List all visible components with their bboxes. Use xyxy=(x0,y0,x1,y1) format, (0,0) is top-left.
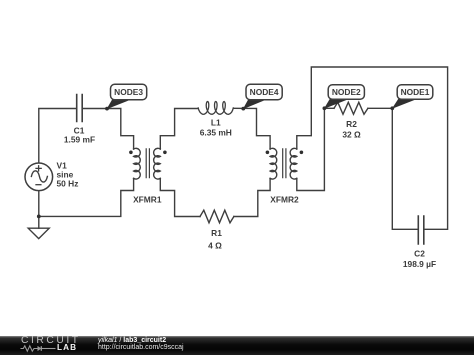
node C junction NODE2 xyxy=(323,106,327,110)
svg-text:198.9 µF: 198.9 µF xyxy=(403,259,436,269)
V1 source circle xyxy=(25,163,53,191)
wire XFMR2 top-right up and around to C2 right plate xyxy=(297,67,448,229)
svg-text:6.35 mH: 6.35 mH xyxy=(200,128,232,138)
NODE4 tail xyxy=(243,98,267,109)
svg-text:XFMR1: XFMR1 xyxy=(133,195,162,205)
NODE4 label box xyxy=(246,84,282,99)
wire L1 to NODE4 to XFMR2 top-left xyxy=(233,108,270,149)
wire C1 to NODE3 to XFMR1 top-left xyxy=(82,109,133,150)
NODE2 tail xyxy=(324,99,348,109)
wire R1 to XFMR2 bottom-left xyxy=(234,178,270,216)
XFMR1 left winding xyxy=(134,148,141,179)
XFMR1 polarity dots xyxy=(129,151,133,155)
XFMR1 right winding xyxy=(154,148,161,179)
svg-text:L1: L1 xyxy=(211,117,221,127)
XFMR1 core xyxy=(146,149,149,178)
wire NODE2 junction to R2 xyxy=(324,107,334,109)
capacitor C2 xyxy=(418,216,424,244)
svg-text:R2: R2 xyxy=(346,119,357,129)
node B junction NODE4 xyxy=(241,107,245,111)
XFMR2 right winding xyxy=(290,148,297,179)
CircuitLab logo xyxy=(21,335,81,347)
resistor R2 xyxy=(334,102,368,114)
resistor R1 xyxy=(200,210,234,223)
node A junction NODE3 xyxy=(105,107,109,111)
wire R2 to NODE1 junction to C2 left plate xyxy=(368,108,418,229)
XFMR2 core xyxy=(283,149,286,178)
node D junction NODE1 xyxy=(390,106,394,110)
wire XFMR2 bottom-right up to NODE2 junction xyxy=(297,108,325,190)
NODE3 tail xyxy=(107,98,132,109)
svg-text:R1: R1 xyxy=(211,228,222,238)
svg-text:NODE3: NODE3 xyxy=(114,87,143,97)
wire V1 bottom to ground junction and to XFMR1 bottom-left xyxy=(39,178,134,228)
XFMR2 left winding xyxy=(270,148,277,179)
NODE1 label box xyxy=(397,85,433,99)
NODE1 tail xyxy=(392,99,416,109)
junction dot ground xyxy=(37,215,41,219)
wire XFMR1 bottom-right to R1 xyxy=(160,178,200,216)
svg-text:32 Ω: 32 Ω xyxy=(342,130,361,140)
XFMR2 polarity dots xyxy=(266,151,270,155)
wire XFMR1 top-right to L1 xyxy=(160,109,198,150)
svg-text:NODE1: NODE1 xyxy=(401,87,430,97)
svg-text:1.59 mF: 1.59 mF xyxy=(64,135,95,145)
ground xyxy=(28,228,49,238)
V1 plus sign xyxy=(36,166,41,171)
svg-text:4 Ω: 4 Ω xyxy=(208,241,222,251)
logo waveform glyph xyxy=(19,344,57,353)
capacitor C1 xyxy=(77,95,83,122)
svg-text:50 Hz: 50 Hz xyxy=(57,179,79,189)
inductor L1 xyxy=(198,102,233,115)
svg-text:NODE4: NODE4 xyxy=(250,87,279,97)
svg-text:NODE2: NODE2 xyxy=(332,87,361,97)
V1 sine glyph xyxy=(31,171,47,182)
wire V1 top to C1 xyxy=(39,109,77,164)
NODE2 label box xyxy=(328,85,364,99)
svg-text:C2: C2 xyxy=(414,249,425,259)
NODE3 label box xyxy=(111,84,147,99)
svg-text:XFMR2: XFMR2 xyxy=(270,195,299,205)
V1 minus sign xyxy=(36,184,41,186)
